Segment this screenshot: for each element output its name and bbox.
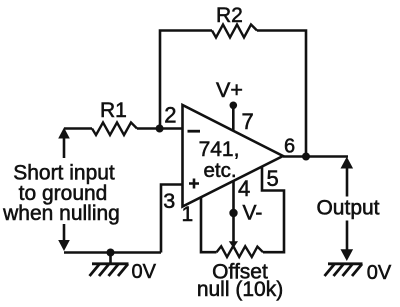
label short input to ground when nulling note [2,162,120,226]
label Offset null (10k) [197,260,283,300]
svg-text:null (10k): null (10k) [197,278,283,301]
resistor R1 [92,123,137,136]
node ground junction dot [107,249,115,257]
wire input to R1 [64,127,92,130]
resistor R2 [212,25,257,38]
ground symbol right [325,264,363,276]
svg-text:741,: 741, [199,138,240,161]
svg-text:when nulling: when nulling [2,202,120,225]
svg-text:R1: R1 [100,99,127,122]
svg-text:2: 2 [164,103,176,128]
wire feedback-left vertical and top-left segment [160,31,212,129]
wire R1 to pin 2 [137,127,183,130]
svg-text:6: 6 [284,136,295,158]
node V+ terminal dot [230,102,238,110]
wire short-input lower arrow shaft [63,224,66,242]
svg-text:5: 5 [267,166,279,191]
node output junction dot [302,153,310,161]
op-amp U1 triangle [183,105,284,207]
wire bottom ground rail [64,251,161,254]
svg-text:7: 7 [242,109,254,134]
svg-text:0V: 0V [367,262,392,284]
svg-text:V+: V+ [216,78,243,102]
wire short-input upper arrow shaft [63,136,66,158]
wire pin 3 L-shape [161,185,183,253]
wire output pin 6 [283,155,348,158]
arrowhead pot wiper [229,241,238,248]
potentiometer offset null 10k [217,246,264,257]
wire pin 5 path [262,167,284,252]
wire top-right segment and feedback-right vertical [257,31,306,157]
arrowhead input up [58,128,70,139]
arrowhead input down [58,240,70,251]
wire ground stub left [109,253,112,264]
op-amp non-inverting input plus sign [189,179,199,189]
svg-text:4: 4 [238,176,250,201]
svg-text:Output: Output [316,197,379,220]
svg-text:3: 3 [163,189,175,213]
svg-text:R2: R2 [216,4,243,27]
wire pin 1 down to pot [201,198,217,253]
ground symbol left [90,264,129,276]
svg-text:0V: 0V [132,261,157,283]
wire output arrow shaft upper [346,166,349,197]
svg-text:etc.: etc. [203,159,236,182]
svg-text:1: 1 [182,203,194,226]
node V- terminal dot [229,209,237,217]
svg-text:V-: V- [243,201,263,224]
op-amp inverting input minus sign [188,130,201,133]
arrowhead output up [341,157,354,169]
wire V+ pin 7 [232,106,235,132]
node pin2 junction dot [156,125,164,133]
wire output arrow shaft lower [346,221,349,253]
arrowhead output down [341,249,354,261]
label 741 etc inside op-amp [199,138,240,182]
wire pin 4 to wiper [232,181,235,242]
